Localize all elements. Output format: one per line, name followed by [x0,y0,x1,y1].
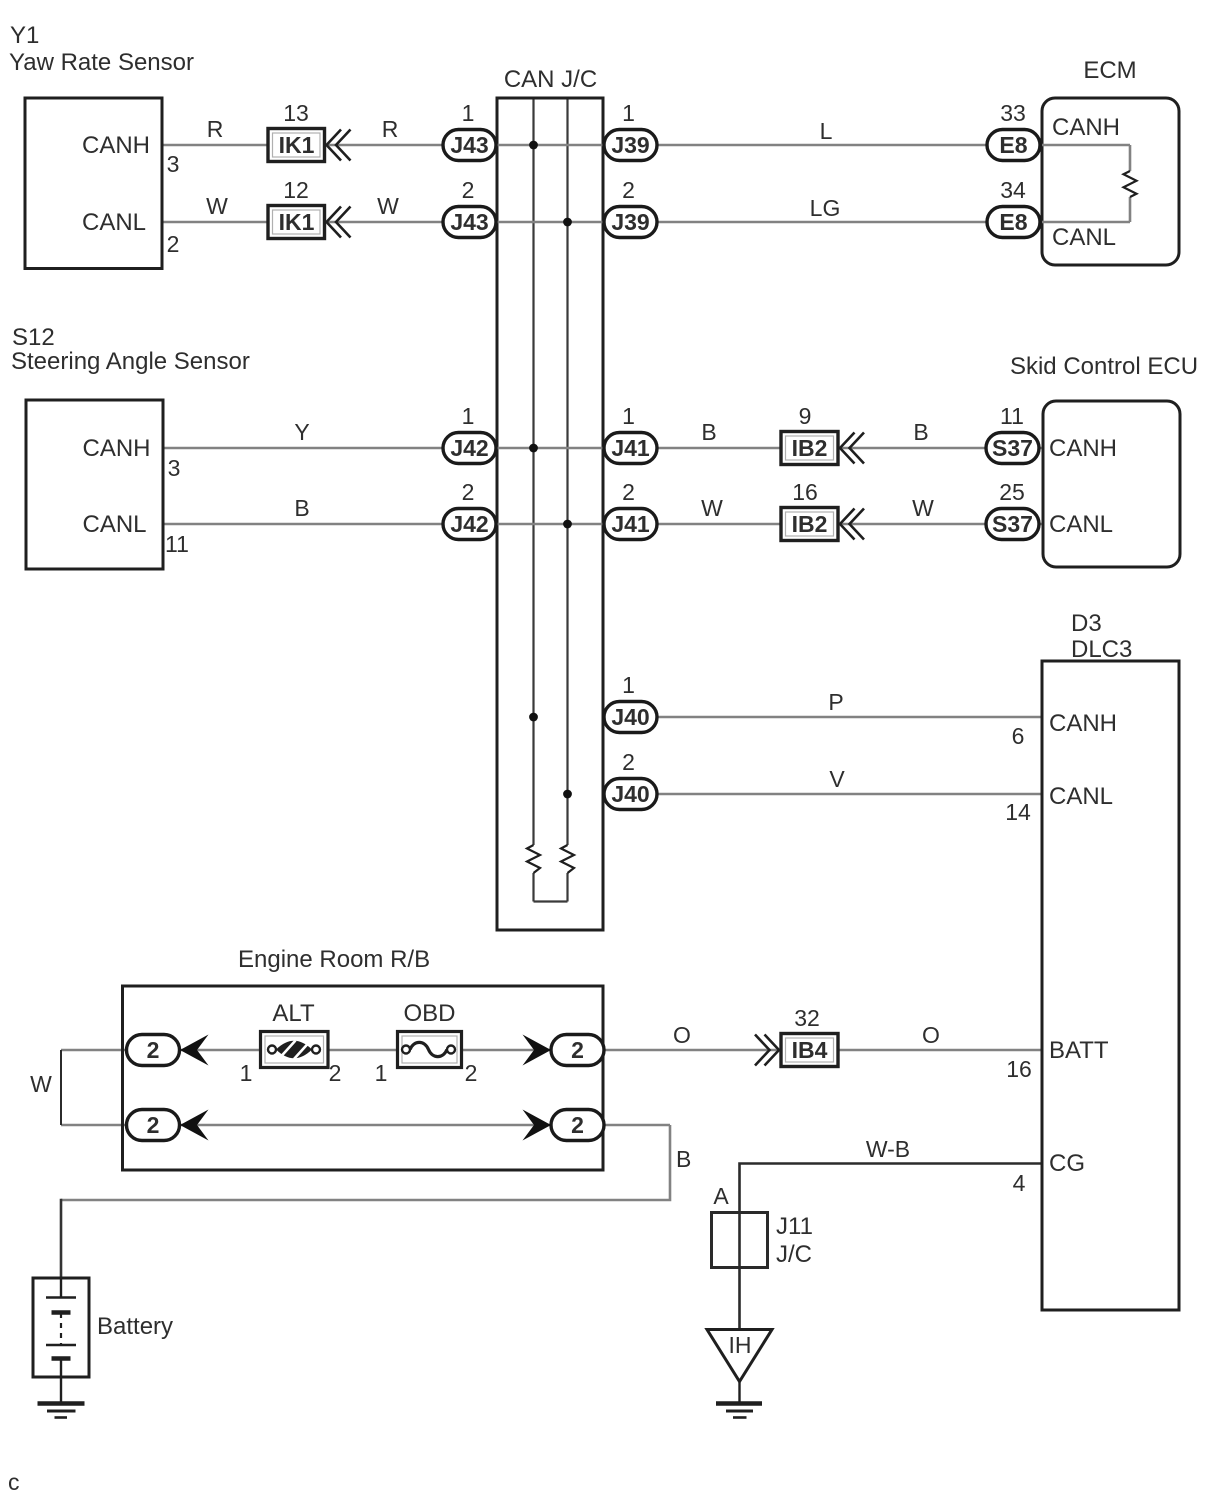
svg-text:2: 2 [462,177,475,203]
svg-text:B: B [294,495,309,521]
svg-text:W: W [206,193,228,219]
connector IB2 row4 [781,508,838,541]
svg-text:3: 3 [167,151,180,177]
svg-text:1: 1 [622,672,635,698]
wire row4 CANL Steering-Skid [163,523,1043,526]
svg-text:2: 2 [147,1112,160,1138]
svg-text:9: 9 [799,403,812,429]
wire row1 CANH Yaw-ECM [162,144,1130,147]
svg-text:33: 33 [1000,100,1026,126]
svg-text:CAN J/C: CAN J/C [504,66,597,93]
svg-text:IB4: IB4 [792,1037,828,1063]
svg-text:16: 16 [1006,1056,1032,1082]
wire W vertical [60,1050,62,1125]
svg-text:11: 11 [165,531,189,557]
svg-text:1: 1 [622,100,635,126]
oval J39 pin1 [604,130,657,161]
svg-text:W: W [912,495,934,521]
svg-text:11: 11 [1000,403,1024,429]
wires layer [61,145,1130,1200]
ECM internal vertical [1129,145,1132,222]
svg-text:IH: IH [729,1332,752,1358]
svg-text:DLC3: DLC3 [1071,636,1132,663]
CAN J/C box [497,98,603,930]
connector IK1 row2 [268,206,325,239]
oval J43 pin2 [443,207,496,238]
arrow connector right-bottom [523,1110,552,1141]
oval J39 pin2 [604,207,657,238]
svg-text:E8: E8 [999,209,1027,235]
arrow connector right-top [523,1035,552,1066]
svg-text:E8: E8 [999,132,1027,158]
oval J42 pin1 [443,433,496,464]
ECM internal wire CANH [1042,144,1130,147]
J11 J/C box [712,1213,768,1268]
svg-text:CANL: CANL [1049,783,1113,810]
junction dot row4 [563,520,572,529]
svg-text:2: 2 [462,479,475,505]
svg-text:J39: J39 [611,132,649,158]
svg-text:V: V [829,766,845,792]
connector IK1 row1 [268,129,325,162]
chevron before IB4 [755,1035,779,1066]
chevron after IB2 row4 [840,509,864,540]
svg-text:Skid Control ECU: Skid Control ECU [1010,353,1198,380]
svg-text:2: 2 [622,479,635,505]
oval J43 pin1 [443,130,496,161]
svg-text:A: A [713,1183,729,1209]
svg-text:OBD: OBD [403,1000,455,1027]
junction dot row2 [563,218,572,227]
svg-text:2: 2 [571,1037,584,1063]
svg-text:J42: J42 [450,435,488,461]
svg-text:1: 1 [375,1060,388,1086]
oval E8 pin33 [987,130,1040,161]
Engine Room R/B box [123,986,604,1170]
junction dot row1 [529,141,538,150]
svg-text:14: 14 [1005,799,1031,825]
svg-text:12: 12 [283,177,309,203]
svg-text:CANH: CANH [82,132,150,159]
svg-text:Yaw Rate Sensor: Yaw Rate Sensor [9,49,194,76]
svg-text:J41: J41 [611,435,650,461]
ECM terminating resistor [1124,171,1137,197]
svg-text:2: 2 [622,177,635,203]
svg-text:CANH: CANH [1049,435,1117,462]
svg-text:R: R [207,116,224,142]
oval J41 pin2 [604,509,657,540]
svg-text:IK1: IK1 [279,132,315,158]
svg-text:B: B [701,419,716,445]
svg-text:R: R [382,116,399,142]
svg-text:B: B [913,419,928,445]
svg-text:CANH: CANH [1049,710,1117,737]
svg-text:2: 2 [329,1060,342,1086]
svg-text:4: 4 [1013,1170,1026,1196]
svg-text:2: 2 [571,1112,584,1138]
wire row3 CANH Steering-Skid [163,447,1043,450]
oval 2 right-top R/B [551,1035,604,1066]
svg-text:J/C: J/C [776,1241,812,1268]
svg-text:IB2: IB2 [792,435,828,461]
svg-text:J42: J42 [450,511,488,537]
svg-text:J43: J43 [450,209,488,235]
svg-text:J39: J39 [611,209,649,235]
svg-text:ECM: ECM [1083,57,1136,84]
fuse ALT fusible link [261,1032,329,1068]
wire battery drop [60,1199,63,1278]
CAN J/C junction block [497,98,603,930]
svg-text:S12: S12 [12,324,55,351]
svg-text:B: B [676,1146,691,1172]
svg-text:2: 2 [465,1060,478,1086]
svg-text:O: O [922,1022,940,1048]
svg-text:ALT: ALT [272,1000,315,1027]
wire W-B to ground [740,1164,1043,1330]
oval J40 pin1 [604,702,657,733]
svg-text:P: P [828,689,843,715]
svg-text:J43: J43 [450,132,488,158]
svg-text:2: 2 [147,1037,160,1063]
svg-text:Y: Y [294,419,309,445]
connector IB2 row3 [781,432,838,465]
oval 2 left-top R/B [127,1035,180,1066]
junction dot row3 [529,444,538,453]
svg-text:13: 13 [283,100,309,126]
wire row2 CANL Yaw-ECM [162,221,1130,224]
resistor bottom join wire [534,900,568,902]
svg-text:S37: S37 [992,511,1033,537]
terminating resistor R-right [561,845,574,873]
svg-text:J40: J40 [611,781,649,807]
svg-text:J41: J41 [611,511,650,537]
svg-text:W: W [30,1071,52,1097]
svg-text:D3: D3 [1071,610,1102,637]
svg-text:CANL: CANL [1052,224,1116,251]
svg-text:W-B: W-B [866,1136,910,1162]
wire B path [61,1125,670,1200]
svg-text:CANL: CANL [83,511,147,538]
Yaw Rate Sensor box Y1 [25,98,162,269]
oval J40 pin2 [604,779,657,810]
CAN J/C bus wires re-draw across box [497,145,603,524]
battery [33,1278,89,1418]
CAN J/C bus line right [566,100,568,902]
svg-text:LG: LG [810,195,841,221]
svg-text:2: 2 [622,749,635,775]
svg-text:1: 1 [622,403,635,429]
svg-text:25: 25 [999,479,1025,505]
CAN J/C bus line left [532,100,534,902]
oval J41 pin1 [604,433,657,464]
arrow connector left-bottom [180,1110,209,1141]
svg-text:32: 32 [794,1005,820,1031]
svg-text:1: 1 [240,1060,253,1086]
svg-text:IB2: IB2 [792,511,828,537]
svg-text:6: 6 [1012,723,1025,749]
svg-text:1: 1 [462,403,475,429]
chevron after IK1 row2 [327,207,351,238]
oval E8 pin34 [987,207,1040,238]
svg-text:CANL: CANL [82,209,146,236]
wire row6 V to DLC3 CANL [568,793,1043,796]
svg-text:34: 34 [1000,177,1026,203]
ground triangle IH [707,1330,772,1418]
fuse OBD [398,1032,462,1068]
terminating resistor R-left [527,845,540,873]
connector IB4 [781,1034,838,1067]
ECM internal wire CANL [1042,221,1130,224]
oval 2 left-bottom R/B [127,1110,180,1141]
ECM box [1042,98,1179,265]
oval J42 pin2 [443,509,496,540]
oval 2 right-bottom R/B [551,1110,604,1141]
svg-text:S37: S37 [992,435,1033,461]
svg-text:J40: J40 [611,704,649,730]
svg-text:CANH: CANH [1052,114,1120,141]
oval S37 pin11 [986,433,1039,464]
svg-text:IK1: IK1 [279,209,315,235]
svg-text:J11: J11 [776,1213,813,1240]
chevron after IB2 row3 [840,433,864,464]
junction dot row6 [563,790,572,799]
svg-text:W: W [701,495,723,521]
arrow connector left-top [180,1035,209,1066]
svg-text:2: 2 [167,231,180,257]
svg-text:Y1: Y1 [10,22,39,49]
svg-text:3: 3 [168,455,181,481]
svg-text:1: 1 [462,100,475,126]
junction dot row5 [529,713,538,722]
svg-text:c: c [8,1469,20,1495]
oval S37 pin25 [986,509,1039,540]
svg-text:BATT: BATT [1049,1037,1109,1064]
svg-text:O: O [673,1022,691,1048]
svg-text:Steering Angle Sensor: Steering Angle Sensor [11,348,250,375]
wire row8 lower power [61,1124,670,1127]
Skid Control ECU box [1043,401,1180,567]
svg-text:CANH: CANH [83,435,151,462]
svg-text:CANL: CANL [1049,511,1113,538]
Steering Angle Sensor box S12 [26,400,163,569]
wire row7 power O to BATT [61,1049,1042,1052]
svg-text:Engine Room R/B: Engine Room R/B [238,946,430,973]
svg-text:Battery: Battery [97,1313,173,1340]
svg-text:16: 16 [792,479,818,505]
svg-text:L: L [820,118,833,144]
svg-text:W: W [377,193,399,219]
chevron after IK1 row1 [327,130,351,161]
DLC3 box D3 [1042,661,1179,1310]
svg-text:CG: CG [1049,1150,1085,1177]
wire row5 P to DLC3 CANH [534,716,1043,719]
